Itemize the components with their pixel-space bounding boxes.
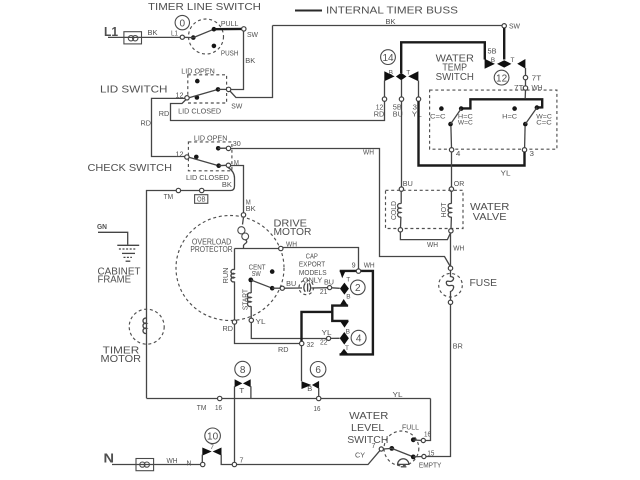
svg-text:LID CLOSED: LID CLOSED xyxy=(178,106,222,115)
svg-text:BK: BK xyxy=(245,58,255,65)
svg-text:OR: OR xyxy=(454,181,465,188)
svg-text:C=C: C=C xyxy=(536,120,552,127)
wire YL bus right xyxy=(321,392,431,399)
node YL motor xyxy=(249,318,266,326)
svg-text:B: B xyxy=(346,329,350,336)
svg-text:7T: 7T xyxy=(532,75,542,82)
cam 12 contacts xyxy=(485,48,526,68)
terminal N xyxy=(104,451,115,466)
lid switch blade xyxy=(189,89,218,97)
contact PUSH xyxy=(212,44,239,58)
node 3 YL xyxy=(412,97,422,119)
legend INTERNAL TIMER BUSS xyxy=(295,5,458,17)
contact C-C left xyxy=(430,106,446,120)
connector plug L1 xyxy=(124,32,142,44)
svg-text:B: B xyxy=(346,293,350,300)
svg-text:BK: BK xyxy=(386,19,396,26)
connector 2 contact B xyxy=(339,293,350,306)
svg-text:9: 9 xyxy=(352,262,356,269)
temp switch common bar xyxy=(462,99,543,108)
node WH motor xyxy=(279,242,297,251)
wire L1 to switch xyxy=(108,36,181,38)
wire cam14 left leg xyxy=(384,81,386,97)
svg-text:30: 30 xyxy=(233,141,241,148)
svg-text:WATER: WATER xyxy=(349,410,389,422)
wire cam12 right leg xyxy=(525,68,527,75)
svg-text:SW: SW xyxy=(247,32,258,39)
wire WH motor to node 9 xyxy=(283,248,359,269)
pin 3 xyxy=(522,148,534,158)
label FULL xyxy=(402,423,419,432)
svg-text:TM: TM xyxy=(197,405,207,412)
contact lid closed xyxy=(195,95,200,100)
cam 10 contacts xyxy=(202,448,221,456)
connector 2 pin diamond xyxy=(340,283,349,295)
wire OR pin4 to valve xyxy=(452,152,465,188)
node 22 YL xyxy=(320,330,340,346)
svg-text:LEVEL: LEVEL xyxy=(351,422,384,434)
wire WH check30 to fuse xyxy=(231,149,450,267)
wire label BK xyxy=(148,30,158,37)
wire cam6 left leg to node 32 xyxy=(301,346,303,382)
ground cabinet frame xyxy=(117,245,139,261)
svg-text:4: 4 xyxy=(456,151,461,158)
svg-text:RD: RD xyxy=(374,112,385,119)
svg-text:T: T xyxy=(406,70,410,77)
svg-text:12: 12 xyxy=(176,151,184,158)
cam 8 contacts xyxy=(235,379,251,395)
contact check closed xyxy=(194,155,199,160)
node SW timer xyxy=(242,27,259,39)
svg-text:SW: SW xyxy=(509,24,520,31)
timer cam 10 xyxy=(205,428,221,451)
node BU motor xyxy=(280,281,296,290)
node 15 xyxy=(422,450,435,458)
cam 6 contacts xyxy=(302,381,320,393)
wire cam14 middle leg xyxy=(401,80,403,97)
svg-text:YL: YL xyxy=(412,112,422,119)
wire cam14 B to 5B buss thick xyxy=(401,42,485,73)
contact lid open check xyxy=(216,146,226,151)
timer cam 8 xyxy=(235,361,251,377)
svg-text:15: 15 xyxy=(427,450,434,457)
wire cam10 right leg xyxy=(221,455,232,465)
fuse xyxy=(439,270,463,300)
wire M BK to motor xyxy=(231,166,257,213)
connector plug N xyxy=(136,459,154,471)
label LID CLOSED xyxy=(178,106,222,115)
node 16 TM xyxy=(215,396,222,412)
node hot bottom xyxy=(449,229,453,233)
wire BU cam14 to valve xyxy=(402,101,413,188)
svg-text:RD: RD xyxy=(159,111,170,118)
node cold bottom xyxy=(398,228,402,232)
node L1 xyxy=(171,31,184,40)
svg-text:8: 8 xyxy=(240,365,246,376)
svg-text:32: 32 xyxy=(307,342,315,349)
node 5B BU xyxy=(393,97,404,119)
connector 4 pin diamond xyxy=(340,332,349,345)
pivot node 7 wls xyxy=(372,443,384,451)
svg-text:C=C: C=C xyxy=(430,114,446,121)
svg-text:RD: RD xyxy=(278,347,289,354)
svg-text:MOTOR: MOTOR xyxy=(274,226,312,238)
title FUSE xyxy=(470,277,498,289)
svg-text:WH: WH xyxy=(364,262,375,269)
wire jumper B2 to B4 and 32 xyxy=(302,306,349,342)
wire cam8 right leg xyxy=(250,386,252,398)
svg-text:OB: OB xyxy=(197,197,206,204)
node OR valve xyxy=(449,187,453,191)
cent sw pivot xyxy=(248,278,272,289)
title TIMER LINE SWITCH xyxy=(148,1,261,13)
svg-text:16: 16 xyxy=(314,406,321,413)
wire valve bottoms WH xyxy=(400,232,450,249)
svg-text:T: T xyxy=(239,388,245,395)
svg-text:10: 10 xyxy=(207,432,219,443)
wire RD lid 12 to check 12 xyxy=(141,98,185,156)
svg-text:EMPTY: EMPTY xyxy=(419,460,442,469)
wire cam8 left leg to node 7 xyxy=(234,386,236,462)
svg-text:16: 16 xyxy=(215,405,222,412)
svg-text:BU: BU xyxy=(403,181,413,188)
node 9 WH xyxy=(352,262,375,273)
timer line switch body xyxy=(189,19,224,54)
svg-text:PROTECTOR: PROTECTOR xyxy=(190,244,232,254)
lid switch body xyxy=(188,75,227,103)
svg-text:BK: BK xyxy=(148,30,158,37)
svg-text:SW: SW xyxy=(231,103,242,110)
timer cam 12 xyxy=(494,70,509,85)
svg-text:PULL: PULL xyxy=(221,21,239,28)
node 16 cam6 xyxy=(314,396,321,413)
wire YL motor to node 22 xyxy=(251,323,326,339)
connector 2 contact T xyxy=(340,271,351,283)
label CENT SW xyxy=(249,264,267,278)
cold solenoid xyxy=(391,191,401,227)
svg-text:7T: 7T xyxy=(514,85,524,92)
node 16 full xyxy=(421,432,431,443)
wire 7T into switch xyxy=(524,90,526,98)
run winding xyxy=(223,249,235,320)
node OB xyxy=(195,188,208,203)
title WATER VALVE xyxy=(470,201,510,223)
wire cam6 right leg xyxy=(318,388,320,396)
contact blade end check xyxy=(216,163,226,168)
svg-text:WH: WH xyxy=(453,246,464,253)
svg-text:LID SWITCH: LID SWITCH xyxy=(100,84,168,96)
svg-text:COLD: COLD xyxy=(391,201,398,220)
svg-text:BU: BU xyxy=(324,279,334,286)
contact lid open xyxy=(195,79,200,84)
drive motor body xyxy=(176,216,284,321)
svg-text:BR: BR xyxy=(453,343,463,350)
title CHECK SWITCH xyxy=(88,162,173,174)
svg-text:B: B xyxy=(307,386,312,393)
node SW lid xyxy=(226,87,242,110)
svg-text:12: 12 xyxy=(376,105,384,112)
wire cam14 right leg xyxy=(418,81,420,97)
switch blade pivot xyxy=(184,29,214,40)
wire BR fuse to empty xyxy=(426,305,463,457)
svg-text:LID CLOSED: LID CLOSED xyxy=(186,173,230,182)
svg-text:INTERNAL TIMER BUSS: INTERNAL TIMER BUSS xyxy=(326,5,458,17)
svg-text:6: 6 xyxy=(315,365,321,376)
title LID SWITCH xyxy=(100,84,168,96)
svg-text:BK: BK xyxy=(222,182,232,189)
wire to pin 4 xyxy=(450,126,453,148)
svg-text:N: N xyxy=(104,451,115,466)
node SW buss right xyxy=(502,24,520,31)
terminal L1 xyxy=(104,24,118,39)
wire TM 16 bus xyxy=(147,399,218,413)
cam 14 contacts xyxy=(384,70,418,82)
wire cam10 left leg xyxy=(201,455,203,463)
contact EMPTY xyxy=(411,455,442,470)
title DRIVE MOTOR xyxy=(274,217,312,238)
svg-text:BK: BK xyxy=(246,206,256,213)
wire BK from SW down to lid switch xyxy=(231,31,256,89)
node fuse top xyxy=(448,266,452,270)
svg-text:MOTOR: MOTOR xyxy=(101,354,142,365)
svg-text:CHECK SWITCH: CHECK SWITCH xyxy=(88,162,173,174)
svg-text:4: 4 xyxy=(356,334,362,345)
node 30 xyxy=(226,141,241,150)
svg-text:TIMER LINE SWITCH: TIMER LINE SWITCH xyxy=(148,1,261,13)
svg-text:GN: GN xyxy=(97,224,107,231)
check switch blade xyxy=(189,157,219,165)
contact PULL xyxy=(212,21,239,32)
water valve body xyxy=(386,190,464,228)
motor box top xyxy=(235,248,279,250)
water temp switch body xyxy=(430,90,557,149)
svg-text:T: T xyxy=(346,276,350,283)
overload protector contacts xyxy=(238,217,249,248)
timer cam 14 xyxy=(381,50,396,65)
svg-text:CY: CY xyxy=(355,452,365,459)
svg-text:YL: YL xyxy=(501,170,511,177)
svg-text:YL: YL xyxy=(256,319,266,326)
node 21 BU xyxy=(320,279,340,296)
label CAP EXPORT MODELS ONLY xyxy=(299,252,327,285)
wire cam12 diamond to SW thick xyxy=(503,28,505,60)
svg-text:12: 12 xyxy=(496,73,508,84)
svg-text:5B: 5B xyxy=(488,48,497,55)
label LID OPEN check xyxy=(194,133,228,142)
node BU valve xyxy=(399,187,403,191)
contact W-C right blade xyxy=(523,105,552,126)
motor connector block xyxy=(340,271,373,355)
node fuse bottom xyxy=(448,300,452,304)
svg-text:W=C: W=C xyxy=(458,120,473,127)
svg-text:LID OPEN: LID OPEN xyxy=(194,133,228,142)
svg-text:RD: RD xyxy=(223,326,234,333)
svg-text:WH: WH xyxy=(363,150,374,157)
wire RD lid 12 to timer cam 14 xyxy=(159,100,385,121)
wire label WH N xyxy=(167,458,178,465)
svg-text:7: 7 xyxy=(372,443,376,450)
node M xyxy=(226,160,239,168)
contact H-C left blade xyxy=(448,106,473,126)
node RD motor xyxy=(223,320,237,333)
svg-text:WH: WH xyxy=(532,85,543,92)
svg-text:RUN: RUN xyxy=(223,268,230,284)
wire label BK check xyxy=(222,182,232,189)
svg-text:L1: L1 xyxy=(171,31,178,38)
svg-text:PUSH: PUSH xyxy=(221,51,239,58)
wire to pin 3 xyxy=(524,126,527,148)
wire PULL to SW thick xyxy=(215,28,243,31)
label LID OPEN xyxy=(181,66,215,75)
title CABINET FRAME xyxy=(98,266,141,285)
hot solenoid xyxy=(441,191,451,228)
node GN xyxy=(97,224,107,231)
wire hot bottom to fuse xyxy=(451,233,465,266)
node M BK motor xyxy=(241,213,245,217)
capacitor C export xyxy=(284,280,327,295)
wls blade xyxy=(383,446,413,457)
node 7T upper xyxy=(523,75,542,82)
svg-text:H=C: H=C xyxy=(502,113,517,120)
wire M to timer motor bus xyxy=(147,167,235,398)
water level switch body xyxy=(384,431,419,466)
svg-text:WH: WH xyxy=(167,458,178,465)
wire internal timer buss top xyxy=(273,19,503,26)
node 7 xyxy=(232,457,243,466)
svg-text:VALVE: VALVE xyxy=(473,211,507,223)
svg-text:SWITCH: SWITCH xyxy=(436,72,474,83)
svg-text:22: 22 xyxy=(320,339,328,346)
svg-text:HOT: HOT xyxy=(441,202,448,218)
wire node7 to water level switch xyxy=(237,451,380,465)
svg-text:2: 2 xyxy=(355,283,361,294)
svg-text:5B: 5B xyxy=(393,105,402,112)
svg-text:14: 14 xyxy=(382,53,394,64)
svg-text:BU: BU xyxy=(286,281,296,288)
svg-text:T: T xyxy=(511,57,515,64)
wire YL cam14 to pin3 xyxy=(419,101,525,177)
svg-text:FULL: FULL xyxy=(402,423,419,432)
node 12 RD xyxy=(374,97,387,119)
timer cam 6 xyxy=(310,362,326,378)
svg-text:7: 7 xyxy=(210,444,214,451)
svg-text:YL: YL xyxy=(322,330,332,337)
circled 4 xyxy=(351,330,366,345)
pin 4 xyxy=(449,148,460,158)
timer cam 0 xyxy=(175,15,189,29)
title WATER LEVEL SWITCH xyxy=(347,410,389,446)
pressure dome xyxy=(398,459,409,467)
wire lid SW up to internal timer buss xyxy=(230,26,273,98)
node TM xyxy=(164,188,181,201)
contact FULL xyxy=(411,437,421,442)
contact blade end xyxy=(216,87,227,92)
svg-text:21: 21 xyxy=(320,289,328,296)
wire GN to ground xyxy=(98,232,128,245)
svg-text:RD: RD xyxy=(141,120,152,127)
start winding xyxy=(242,282,251,318)
svg-text:WH: WH xyxy=(427,242,438,249)
contact H-C right xyxy=(502,106,517,120)
svg-text:START: START xyxy=(242,288,249,310)
contact cent sw upper xyxy=(270,269,275,274)
wire full16 to YL bus xyxy=(425,399,430,441)
check switch body xyxy=(188,142,232,171)
wire bus to cam8 xyxy=(222,398,317,400)
circled 2 xyxy=(351,280,366,295)
svg-text:0: 0 xyxy=(180,18,186,29)
svg-text:7: 7 xyxy=(240,457,244,464)
timer motor xyxy=(129,309,164,344)
node 32 xyxy=(300,341,315,349)
svg-text:N: N xyxy=(187,460,192,467)
wire N to plug xyxy=(112,464,201,466)
svg-text:FUSE: FUSE xyxy=(470,277,498,289)
svg-text:TM: TM xyxy=(164,194,174,201)
wire RD motor to node 32 xyxy=(235,324,300,354)
pin 12 lid xyxy=(176,93,190,101)
svg-text:3: 3 xyxy=(530,151,535,158)
connector 4 contact B xyxy=(340,321,350,335)
svg-text:YL: YL xyxy=(393,392,403,399)
pin 12 check xyxy=(176,151,190,159)
node 7T WH xyxy=(514,80,543,92)
svg-text:FRAME: FRAME xyxy=(98,275,132,286)
title TIMER MOTOR xyxy=(101,345,142,365)
svg-text:3: 3 xyxy=(413,105,418,112)
title OVERLOAD PROTECTOR xyxy=(190,236,232,254)
connector 4 contact T xyxy=(340,345,349,355)
title WATER TEMP SWITCH xyxy=(436,54,474,83)
svg-text:LID OPEN: LID OPEN xyxy=(181,66,215,75)
svg-text:SW: SW xyxy=(252,271,262,278)
node N small xyxy=(187,460,205,467)
svg-text:SWITCH: SWITCH xyxy=(347,434,388,446)
label LID CLOSED check xyxy=(186,173,230,182)
contact cent sw lower xyxy=(270,286,280,291)
